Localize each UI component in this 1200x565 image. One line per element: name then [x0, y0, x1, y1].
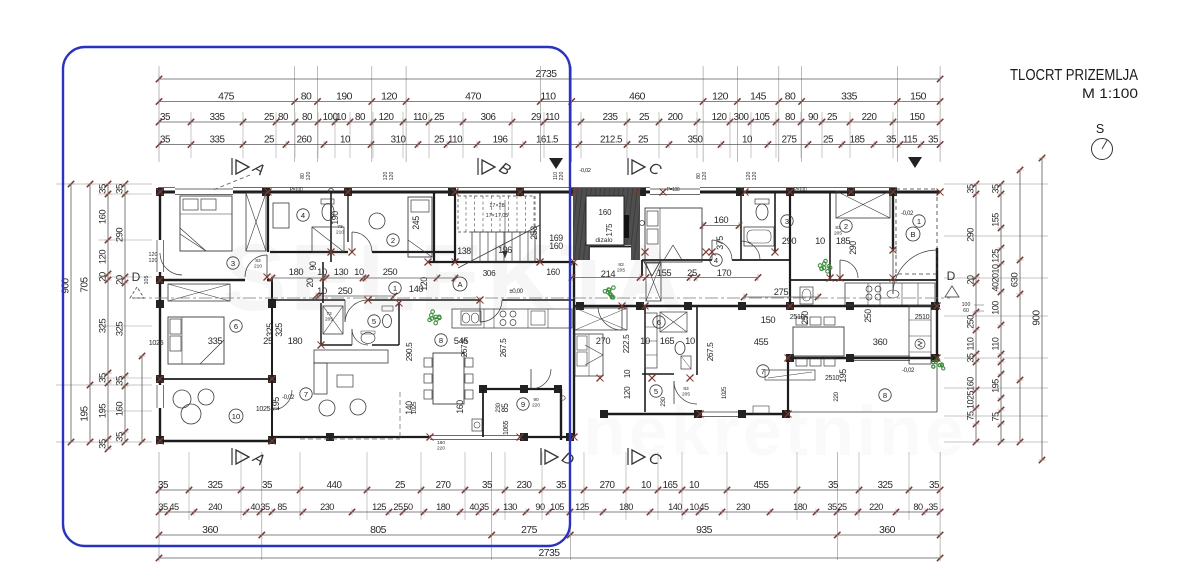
svg-text:375: 375	[715, 236, 725, 250]
svg-text:190: 190	[336, 91, 353, 102]
svg-text:25: 25	[393, 502, 403, 512]
svg-text:7: 7	[761, 367, 765, 376]
svg-text:35: 35	[97, 373, 108, 383]
svg-text:25: 25	[264, 112, 275, 123]
svg-text:105: 105	[755, 112, 771, 123]
svg-text:1: 1	[393, 284, 397, 293]
svg-text:125: 125	[991, 249, 1001, 263]
svg-text:120: 120	[389, 172, 395, 181]
svg-text:25: 25	[823, 134, 834, 145]
svg-text:360: 360	[873, 336, 888, 347]
svg-text:2735: 2735	[538, 548, 560, 559]
svg-text:230: 230	[495, 402, 502, 412]
svg-text:150: 150	[910, 91, 927, 102]
svg-text:P=100: P=100	[667, 187, 680, 193]
svg-text:195: 195	[838, 369, 848, 383]
svg-text:1065: 1065	[503, 421, 510, 435]
svg-text:935: 935	[696, 525, 713, 536]
svg-text:105: 105	[144, 276, 150, 285]
svg-text:195: 195	[991, 379, 1001, 393]
svg-text:35: 35	[827, 502, 837, 512]
svg-text:1025: 1025	[256, 404, 271, 413]
svg-text:350: 350	[688, 134, 704, 145]
svg-text:290: 290	[966, 228, 976, 242]
svg-text:35: 35	[928, 502, 938, 512]
svg-text:310: 310	[391, 134, 407, 145]
svg-text:460: 460	[629, 91, 646, 102]
svg-text:120: 120	[702, 172, 708, 181]
svg-text:270: 270	[596, 335, 611, 346]
svg-text:222.5: 222.5	[622, 334, 631, 353]
svg-text:440: 440	[327, 480, 343, 491]
svg-text:5: 5	[372, 317, 376, 326]
svg-text:705: 705	[80, 276, 91, 292]
svg-text:150: 150	[761, 314, 776, 325]
svg-text:402010: 402010	[991, 264, 1001, 292]
svg-text:250: 250	[966, 315, 976, 329]
svg-text:325: 325	[114, 322, 125, 336]
svg-text:B: B	[910, 230, 915, 239]
svg-text:325: 325	[208, 480, 224, 491]
svg-text:250: 250	[383, 266, 398, 277]
svg-text:35: 35	[828, 480, 839, 491]
svg-text:3: 3	[785, 217, 789, 226]
svg-text:165: 165	[660, 335, 675, 346]
svg-text:805: 805	[370, 525, 387, 536]
svg-text:160: 160	[97, 210, 108, 224]
svg-text:630: 630	[1010, 273, 1021, 288]
svg-text:120: 120	[97, 250, 108, 264]
svg-text:145: 145	[750, 91, 767, 102]
svg-text:195: 195	[97, 404, 108, 418]
svg-text:290: 290	[114, 228, 125, 242]
svg-text:±0,00: ±0,00	[509, 288, 523, 295]
svg-text:190: 190	[330, 211, 340, 225]
svg-text:290: 290	[848, 241, 858, 255]
svg-text:35: 35	[886, 134, 897, 145]
svg-text:230: 230	[320, 502, 334, 512]
svg-text:115: 115	[903, 134, 918, 145]
svg-text:155: 155	[991, 213, 1001, 227]
svg-text:130: 130	[334, 266, 349, 277]
svg-text:90: 90	[535, 502, 545, 512]
svg-text:160: 160	[546, 267, 560, 277]
svg-text:35: 35	[928, 134, 939, 145]
svg-text:120: 120	[712, 112, 728, 123]
svg-text:35: 35	[160, 112, 171, 123]
svg-text:D: D	[947, 269, 956, 283]
svg-text:73: 73	[337, 224, 343, 230]
svg-text:325: 325	[878, 480, 894, 491]
svg-text:7: 7	[304, 390, 308, 399]
svg-text:83: 83	[835, 225, 841, 231]
svg-text:25: 25	[395, 480, 406, 491]
svg-text:155: 155	[657, 267, 672, 278]
svg-text:105: 105	[550, 502, 564, 512]
svg-text:230: 230	[660, 396, 667, 406]
svg-text:25: 25	[638, 134, 649, 145]
svg-text:35: 35	[966, 353, 976, 363]
svg-text:205: 205	[617, 268, 625, 274]
svg-text:160: 160	[114, 402, 125, 416]
svg-text:nekretnine: nekretnine	[583, 392, 967, 470]
svg-text:10: 10	[689, 480, 700, 491]
svg-text:335: 335	[841, 91, 858, 102]
svg-text:17×28: 17×28	[489, 203, 504, 209]
svg-text:120: 120	[149, 258, 158, 264]
svg-text:120: 120	[306, 172, 312, 181]
svg-text:125: 125	[372, 502, 386, 512]
svg-text:253: 253	[529, 226, 539, 240]
svg-text:180: 180	[288, 335, 303, 346]
svg-text:35: 35	[97, 184, 108, 194]
svg-text:210: 210	[336, 230, 344, 236]
svg-text:35: 35	[991, 184, 1001, 194]
svg-text:D: D	[132, 270, 141, 284]
svg-text:245: 245	[411, 216, 421, 230]
svg-text:240: 240	[208, 502, 222, 512]
svg-text:335: 335	[208, 335, 223, 346]
svg-text:35: 35	[114, 184, 125, 194]
svg-text:475: 475	[218, 91, 235, 102]
svg-text:200: 200	[668, 112, 684, 123]
svg-text:35: 35	[479, 502, 489, 512]
svg-text:83: 83	[618, 262, 624, 268]
svg-text:205: 205	[325, 317, 333, 323]
svg-text:25: 25	[837, 502, 847, 512]
svg-text:85: 85	[277, 502, 287, 512]
svg-text:360: 360	[202, 525, 219, 536]
svg-text:80: 80	[913, 502, 923, 512]
svg-text:1025: 1025	[966, 390, 976, 409]
svg-text:29: 29	[531, 112, 541, 123]
svg-text:306: 306	[483, 269, 496, 278]
svg-text:455: 455	[754, 336, 769, 347]
svg-text:290: 290	[782, 235, 797, 246]
svg-text:180: 180	[289, 266, 304, 277]
svg-text:25: 25	[434, 112, 445, 123]
svg-text:196: 196	[493, 134, 509, 145]
svg-text:180: 180	[436, 502, 450, 512]
svg-text:220: 220	[437, 446, 445, 452]
svg-text:5: 5	[654, 387, 658, 396]
svg-text:6: 6	[657, 318, 661, 327]
svg-text:17×17,05: 17×17,05	[486, 213, 509, 219]
svg-text:25: 25	[264, 134, 275, 145]
svg-text:270: 270	[436, 480, 452, 491]
svg-text:8: 8	[439, 336, 443, 345]
svg-text:250: 250	[800, 311, 810, 325]
svg-text:100: 100	[991, 301, 1001, 315]
svg-text:1025: 1025	[721, 386, 728, 399]
svg-text:120: 120	[419, 277, 429, 291]
svg-text:80: 80	[785, 91, 796, 102]
svg-text:220: 220	[532, 403, 540, 409]
svg-text:160: 160	[549, 241, 563, 251]
svg-text:-0,02: -0,02	[902, 367, 915, 374]
svg-text:dizalo: dizalo	[595, 237, 613, 244]
svg-text:214: 214	[601, 268, 616, 279]
svg-text:120: 120	[381, 91, 398, 102]
svg-text:470: 470	[465, 91, 482, 102]
svg-text:10: 10	[232, 412, 240, 421]
svg-text:267.5: 267.5	[499, 338, 508, 357]
svg-text:325: 325	[97, 319, 108, 333]
svg-text:161.5: 161.5	[536, 134, 559, 145]
svg-text:1025: 1025	[149, 338, 164, 347]
svg-text:110: 110	[966, 337, 976, 350]
svg-text:80: 80	[302, 112, 313, 123]
svg-text:180: 180	[619, 502, 633, 512]
svg-text:110: 110	[991, 337, 1001, 350]
svg-text:10: 10	[815, 235, 825, 246]
svg-text:455: 455	[754, 480, 770, 491]
svg-text:335: 335	[210, 134, 226, 145]
svg-text:-0,02: -0,02	[282, 394, 295, 401]
svg-text:165: 165	[663, 480, 679, 491]
svg-text:140: 140	[668, 502, 682, 512]
svg-text:185: 185	[850, 134, 866, 145]
svg-text:235: 235	[603, 112, 619, 123]
svg-text:220: 220	[869, 502, 883, 512]
svg-text:25: 25	[827, 112, 838, 123]
svg-text:120: 120	[752, 172, 758, 181]
svg-text:290.5: 290.5	[405, 342, 414, 361]
svg-text:196: 196	[498, 245, 512, 255]
svg-text:25: 25	[639, 112, 650, 123]
svg-text:180: 180	[793, 502, 807, 512]
svg-text:220: 220	[559, 172, 565, 181]
svg-text:8: 8	[883, 391, 887, 400]
svg-text:10: 10	[336, 112, 347, 123]
svg-text:138: 138	[457, 246, 471, 256]
svg-text:2: 2	[844, 222, 848, 231]
svg-text:35: 35	[966, 184, 976, 194]
svg-text:40: 40	[469, 502, 479, 512]
svg-text:20: 20	[305, 278, 315, 287]
svg-text:10: 10	[742, 134, 753, 145]
svg-text:25: 25	[434, 134, 445, 145]
svg-text:10: 10	[317, 266, 327, 277]
svg-text:325: 325	[274, 323, 284, 337]
svg-text:110: 110	[540, 91, 556, 102]
svg-text:TLOCRT PRIZEMLJA: TLOCRT PRIZEMLJA	[1010, 67, 1138, 84]
svg-text:35: 35	[114, 376, 125, 386]
svg-text:4: 4	[301, 211, 305, 220]
svg-text:3: 3	[231, 259, 235, 268]
svg-text:S: S	[1096, 122, 1104, 136]
svg-text:-0,02: -0,02	[901, 210, 914, 217]
svg-text:210: 210	[254, 264, 262, 270]
svg-text:90: 90	[533, 397, 539, 403]
svg-text:230: 230	[736, 502, 750, 512]
svg-text:212.5: 212.5	[600, 134, 623, 145]
svg-text:35: 35	[929, 480, 940, 491]
svg-text:160: 160	[598, 208, 612, 217]
svg-text:110: 110	[545, 112, 560, 123]
svg-text:50: 50	[403, 502, 413, 512]
svg-text:45: 45	[699, 502, 709, 512]
svg-text:360: 360	[879, 525, 896, 536]
svg-text:335: 335	[210, 112, 226, 123]
svg-text:4: 4	[714, 256, 718, 265]
svg-text:P=100: P=100	[794, 187, 807, 193]
svg-text:10: 10	[317, 285, 327, 296]
svg-text:83: 83	[255, 258, 261, 264]
svg-text:10: 10	[354, 266, 364, 277]
svg-text:150: 150	[910, 112, 926, 123]
svg-text:P=100: P=100	[290, 187, 303, 193]
svg-text:90: 90	[808, 112, 819, 123]
svg-text:80: 80	[278, 112, 289, 123]
svg-text:35: 35	[97, 439, 108, 449]
svg-text:20: 20	[97, 272, 108, 282]
svg-text:175: 175	[605, 223, 614, 237]
svg-text:60: 60	[963, 308, 969, 314]
svg-text:20: 20	[114, 275, 125, 285]
svg-text:73: 73	[326, 311, 332, 317]
svg-text:195: 195	[271, 397, 281, 411]
svg-text:35: 35	[482, 480, 493, 491]
svg-text:120: 120	[379, 112, 395, 123]
svg-text:10: 10	[640, 335, 650, 346]
svg-text:40: 40	[250, 502, 260, 512]
svg-text:220: 220	[833, 391, 840, 401]
svg-text:160: 160	[966, 377, 976, 391]
svg-text:80: 80	[785, 112, 796, 123]
svg-text:900: 900	[1032, 309, 1043, 325]
svg-text:10: 10	[689, 502, 699, 512]
svg-text:2735: 2735	[535, 69, 557, 80]
svg-text:35: 35	[158, 480, 169, 491]
svg-text:270: 270	[600, 480, 616, 491]
svg-text:10: 10	[685, 335, 695, 346]
svg-text:35: 35	[160, 134, 171, 145]
svg-text:250: 250	[863, 309, 873, 323]
svg-text:90: 90	[308, 261, 318, 270]
svg-text:220: 220	[862, 112, 878, 123]
svg-text:45: 45	[169, 502, 179, 512]
svg-text:35: 35	[260, 502, 270, 512]
svg-text:260: 260	[297, 134, 313, 145]
svg-text:75: 75	[966, 411, 976, 421]
svg-text:-0,02: -0,02	[579, 168, 590, 174]
svg-text:9: 9	[521, 400, 525, 409]
svg-text:1025: 1025	[411, 401, 418, 414]
svg-text:120: 120	[623, 386, 632, 399]
svg-text:195: 195	[80, 405, 91, 421]
svg-text:250: 250	[338, 285, 353, 296]
svg-text:25: 25	[687, 267, 697, 278]
svg-text:10: 10	[641, 480, 652, 491]
svg-text:267.5: 267.5	[706, 342, 715, 361]
svg-text:160: 160	[714, 214, 729, 225]
svg-text:300: 300	[734, 112, 750, 123]
svg-text:130: 130	[503, 502, 517, 512]
svg-text:83: 83	[683, 386, 689, 392]
svg-text:2: 2	[391, 236, 395, 245]
svg-text:35: 35	[114, 432, 125, 442]
svg-text:125: 125	[575, 502, 589, 512]
svg-text:110: 110	[413, 112, 428, 123]
svg-text:6: 6	[234, 322, 238, 331]
svg-text:275: 275	[774, 286, 789, 297]
svg-text:275: 275	[782, 134, 798, 145]
svg-text:35: 35	[262, 480, 273, 491]
svg-text:80: 80	[301, 91, 312, 102]
svg-text:306: 306	[481, 112, 497, 123]
svg-text:10: 10	[340, 134, 351, 145]
svg-text:205: 205	[682, 392, 690, 398]
svg-text:2510: 2510	[915, 312, 930, 321]
svg-text:275: 275	[521, 525, 538, 536]
svg-text:180: 180	[437, 440, 445, 446]
svg-text:1: 1	[917, 217, 921, 226]
svg-text:10: 10	[623, 369, 632, 378]
svg-text:230: 230	[517, 480, 533, 491]
svg-text:35: 35	[158, 502, 168, 512]
svg-text:35: 35	[556, 480, 567, 491]
svg-text:M 1:100: M 1:100	[1082, 85, 1138, 101]
svg-text:80: 80	[355, 112, 366, 123]
svg-text:110: 110	[448, 134, 463, 145]
svg-text:267.5: 267.5	[460, 338, 469, 357]
svg-text:170: 170	[717, 267, 732, 278]
svg-text:160: 160	[455, 400, 465, 414]
svg-text:20: 20	[966, 275, 976, 285]
svg-text:75: 75	[991, 412, 1001, 422]
svg-text:205: 205	[834, 231, 842, 237]
svg-text:120: 120	[712, 91, 729, 102]
